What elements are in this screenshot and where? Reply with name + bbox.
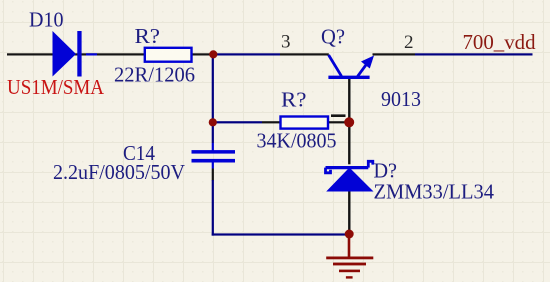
svg-text:2.2uF/0805/50V: 2.2uF/0805/50V	[53, 160, 185, 184]
svg-text:9013: 9013	[381, 87, 421, 111]
svg-text:22R/1206: 22R/1206	[114, 63, 195, 87]
svg-text:700_vdd: 700_vdd	[463, 30, 536, 54]
svg-text:R?: R?	[281, 88, 307, 112]
svg-text:US1M/SMA: US1M/SMA	[7, 75, 105, 99]
svg-text:D10: D10	[29, 7, 64, 31]
svg-text:3: 3	[281, 32, 291, 53]
svg-text:R?: R?	[135, 24, 161, 48]
svg-text:2: 2	[404, 32, 414, 53]
svg-text:ZMM33/LL34: ZMM33/LL34	[374, 180, 495, 204]
svg-text:Q?: Q?	[321, 25, 345, 49]
svg-text:34K/0805: 34K/0805	[257, 129, 337, 153]
